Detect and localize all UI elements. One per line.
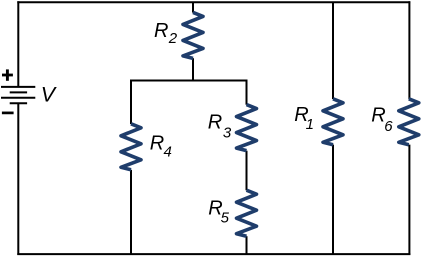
svg-text:5: 5 [221,209,230,226]
svg-text:3: 3 [223,125,232,142]
svg-text:R: R [150,132,164,154]
svg-text:1: 1 [306,116,314,133]
svg-text:R: R [208,111,222,133]
svg-text:6: 6 [384,118,393,135]
svg-text:4: 4 [164,143,172,160]
svg-text:R: R [154,20,168,42]
svg-text:2: 2 [168,30,178,47]
svg-text:V: V [41,83,58,107]
